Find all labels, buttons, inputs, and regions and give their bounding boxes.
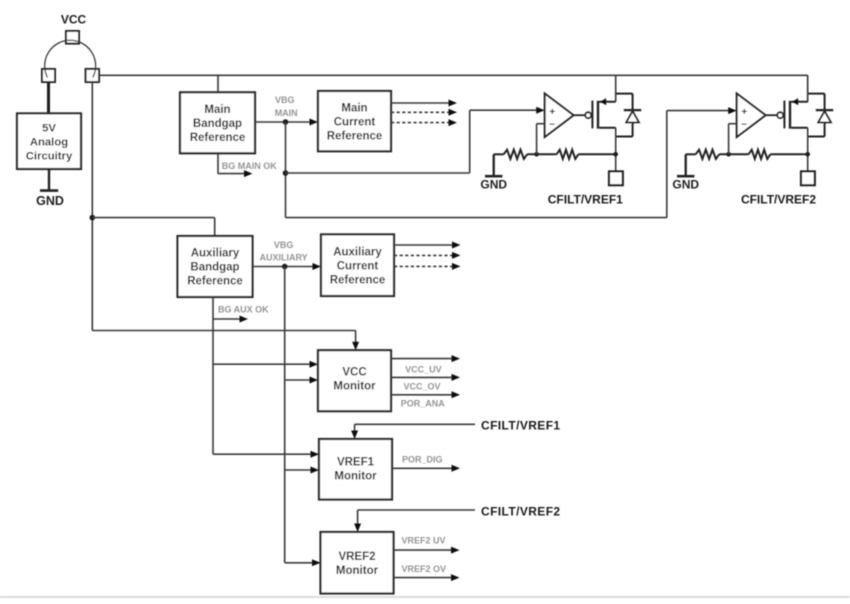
svg-text:+: +	[549, 107, 555, 118]
svg-text:Monitor: Monitor	[336, 565, 379, 577]
svg-text:POR_ANA: POR_ANA	[401, 399, 446, 409]
svg-text:Bandgap: Bandgap	[193, 118, 242, 130]
svg-text:Monitor: Monitor	[333, 380, 376, 392]
svg-text:−: −	[741, 119, 747, 130]
svg-text:Monitor: Monitor	[334, 471, 377, 483]
svg-text:Current: Current	[334, 116, 376, 128]
svg-text:Auxiliary: Auxiliary	[333, 246, 382, 258]
svg-text:−: −	[549, 119, 555, 130]
svg-text:VREF1: VREF1	[337, 457, 375, 469]
svg-text:BG AUX OK: BG AUX OK	[218, 304, 269, 314]
svg-text:Reference: Reference	[187, 276, 243, 288]
svg-text:Bandgap: Bandgap	[190, 262, 239, 274]
svg-text:CFILT/VREF1: CFILT/VREF1	[481, 419, 561, 433]
svg-text:Reference: Reference	[327, 130, 383, 142]
svg-text:VCC_OV: VCC_OV	[403, 382, 440, 392]
svg-text:MAIN: MAIN	[275, 108, 298, 118]
svg-text:VREF2 OV: VREF2 OV	[402, 564, 447, 574]
svg-text:Current: Current	[337, 260, 379, 272]
svg-text:CFILT/VREF2: CFILT/VREF2	[741, 193, 816, 207]
svg-text:Auxiliary: Auxiliary	[191, 248, 240, 260]
svg-text:Reference: Reference	[330, 274, 386, 286]
svg-text:POR_DIG: POR_DIG	[402, 455, 443, 465]
svg-text:Main: Main	[204, 104, 230, 116]
svg-text:BG MAIN OK: BG MAIN OK	[222, 161, 277, 171]
svg-text:GND: GND	[672, 178, 699, 192]
svg-text:VBG: VBG	[275, 95, 295, 105]
svg-text:Reference: Reference	[190, 132, 246, 144]
svg-text:Analog: Analog	[30, 136, 68, 148]
svg-text:VCC_UV: VCC_UV	[405, 365, 442, 375]
svg-text:VCC: VCC	[342, 366, 366, 378]
svg-text:VCC: VCC	[61, 13, 87, 27]
svg-text:Main: Main	[341, 102, 367, 114]
svg-text:GND: GND	[36, 194, 64, 208]
svg-text:5V: 5V	[42, 122, 56, 134]
svg-text:CFILT/VREF1: CFILT/VREF1	[548, 193, 623, 207]
svg-text:VREF2 UV: VREF2 UV	[401, 536, 445, 546]
svg-text:VREF2: VREF2	[338, 551, 375, 563]
svg-text:+: +	[741, 107, 747, 118]
svg-text:CFILT/VREF2: CFILT/VREF2	[481, 504, 561, 518]
svg-text:VBG: VBG	[274, 240, 294, 250]
svg-text:AUXILIARY: AUXILIARY	[260, 252, 308, 262]
svg-text:Circuitry: Circuitry	[26, 150, 73, 162]
svg-text:GND: GND	[480, 178, 507, 192]
